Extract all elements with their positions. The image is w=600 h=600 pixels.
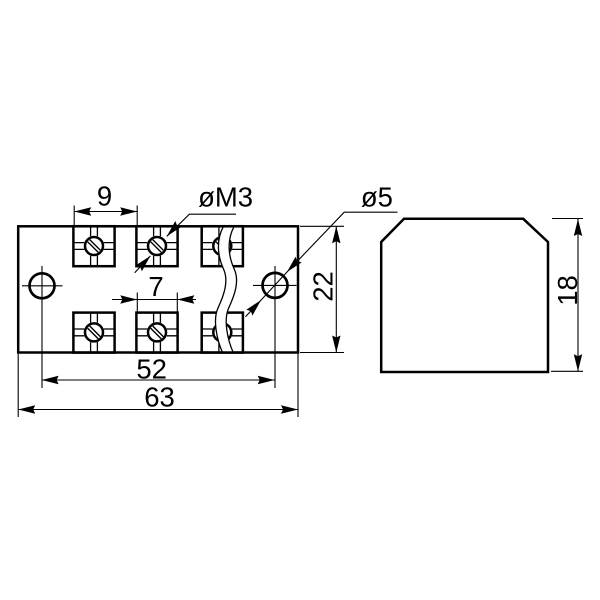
dimension 63 (overall length) xyxy=(18,354,298,417)
svg-text:63: 63 xyxy=(144,381,175,412)
dimension 9 (terminal pitch) xyxy=(74,180,137,226)
mounting hole right (ø5) xyxy=(263,273,288,298)
svg-text:18: 18 xyxy=(552,275,583,306)
dimension 18 (side view height) xyxy=(551,219,583,372)
dimension 7 (terminal width) xyxy=(112,271,196,314)
leader label ø5 (mounting hole) xyxy=(246,181,398,316)
break band (white fill between wavy lines) xyxy=(215,226,236,352)
terminal cell B1 (bottom row, col 1) xyxy=(73,313,114,353)
centerlines of right hole xyxy=(253,266,297,388)
dimension 52 (hole spacing) xyxy=(42,353,275,384)
break wavy line right xyxy=(226,226,236,352)
svg-text:ø5: ø5 xyxy=(361,181,393,212)
terminal cell A3 (top row, col 3, behind break) xyxy=(202,226,243,266)
terminal cell A2 (top row, col 2, M3 screw) xyxy=(136,226,177,266)
centerlines of left hole xyxy=(22,266,63,388)
terminal cell B2 (bottom row, col 2) xyxy=(136,313,177,353)
terminal cell B3 (bottom row, col 3, behind break) xyxy=(202,313,243,353)
dimension 22 (body width) xyxy=(300,226,344,352)
svg-text:7: 7 xyxy=(148,271,163,302)
terminal cell A1 (top row, col 1) xyxy=(73,226,114,266)
svg-text:øM3: øM3 xyxy=(198,181,253,212)
side view outline xyxy=(381,219,548,372)
svg-text:22: 22 xyxy=(308,271,339,302)
svg-text:52: 52 xyxy=(136,353,167,384)
top view body outline xyxy=(18,226,298,352)
break wavy line left xyxy=(215,226,225,352)
leader label øM3 (screw thread) xyxy=(135,181,253,272)
mounting hole left xyxy=(30,273,55,298)
svg-text:9: 9 xyxy=(97,180,112,211)
